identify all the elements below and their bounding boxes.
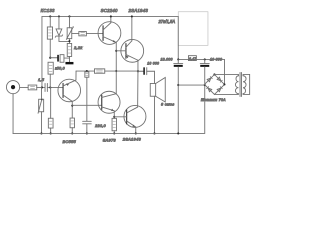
svg-text:SA973: SA973 <box>103 138 117 143</box>
potentiometer RV1 volume <box>40 87 42 99</box>
wire wiper to base resistor <box>72 32 79 34</box>
node negative line left <box>177 84 179 86</box>
transformer T1 primary <box>243 76 246 94</box>
diode bridge arm top-left <box>207 78 211 82</box>
wire bridge DC plus <box>223 59 225 84</box>
capacitor C1 input coupling 1,5 <box>44 83 46 91</box>
wire bridge to transformer bottom <box>214 93 238 96</box>
transistor Q2 2SA1943 top <box>121 39 144 62</box>
node Q5 base junction <box>113 116 115 118</box>
node input junction <box>41 86 43 88</box>
node pot ground junction <box>40 132 42 134</box>
svg-text:BC555: BC555 <box>62 139 76 144</box>
svg-text:0,47: 0,47 <box>189 57 196 61</box>
wire bridge to transformer top <box>214 74 238 75</box>
svg-text:10 000: 10 000 <box>147 61 159 65</box>
wire Q4 emitter down <box>113 111 115 119</box>
wire bottom rail <box>13 85 205 133</box>
connector J1 input jack <box>6 81 19 94</box>
wire Q1 emitter down <box>115 42 117 93</box>
resistor R5 base stopper <box>79 32 87 36</box>
svg-text:2SA1943: 2SA1943 <box>128 8 149 13</box>
gray box top right <box>178 12 208 46</box>
wire input signal <box>20 86 29 88</box>
wire feedback line <box>76 70 94 72</box>
resistor R3 lower bias <box>48 62 53 74</box>
svg-text:220,0: 220,0 <box>94 124 106 128</box>
node divider junction <box>86 70 88 72</box>
wire top positive rail <box>42 15 178 17</box>
node feedback crossing <box>115 70 117 72</box>
diode bridge arm bottom-left <box>208 88 212 92</box>
capacitor C6 10 000 right <box>204 59 206 63</box>
resistor R8 collector load <box>70 118 74 128</box>
node Q3 collector junction <box>71 105 73 107</box>
svg-text:1,5: 1,5 <box>38 77 45 82</box>
capacitor C4 output 10 000 <box>138 70 143 72</box>
resistor R4 2,2k <box>67 43 71 56</box>
node Q2 base junction <box>115 50 117 52</box>
resistor R11 bias lower <box>50 87 52 118</box>
node bridge top <box>213 73 215 75</box>
svg-text:10.000: 10.000 <box>160 58 172 62</box>
capacitor C5 10.000 left <box>177 59 179 63</box>
resistor R2 upper bias <box>49 15 51 17</box>
resistor R9 emitter <box>112 118 116 130</box>
diode bridge arm top-right <box>217 77 221 81</box>
capacitor C3 220,0 <box>83 120 92 122</box>
wire negative line <box>178 84 204 86</box>
svg-text:Шоттки 70А: Шоттки 70А <box>201 98 226 102</box>
bridge rectifier D2 <box>204 74 224 94</box>
svg-text:2,2k: 2,2k <box>73 45 83 50</box>
svg-text:27в/1,5А: 27в/1,5А <box>157 19 175 24</box>
wire positive feed down <box>177 16 179 59</box>
svg-text:2SA1943: 2SA1943 <box>122 136 142 141</box>
node base junction <box>49 86 51 88</box>
transformer core <box>239 72 241 96</box>
transformer T1 secondary <box>235 76 238 94</box>
node zener bias junction <box>49 57 51 59</box>
svg-text:КС133: КС133 <box>41 8 55 13</box>
capacitor C2 bypass k50,0 <box>50 57 57 59</box>
resistor R7 divider <box>85 72 89 77</box>
wire bias vertical from rail to input line <box>41 16 43 87</box>
transistor Q1 BC2240 <box>98 22 121 45</box>
resistor R10 0,47 <box>188 56 196 61</box>
wire filter node line <box>178 58 224 60</box>
wire R1 to junction <box>37 86 45 88</box>
transistor Q4 SA973 driver <box>98 91 120 113</box>
node trimmer junction <box>68 40 70 42</box>
wire primary terminals <box>243 74 250 94</box>
svg-text:SC2240: SC2240 <box>101 8 118 13</box>
wire jack to ground rail <box>12 94 14 134</box>
node filter left <box>177 58 179 60</box>
transistor Q5 2SA1943 bottom <box>124 105 146 127</box>
zener D1 KC133 <box>58 15 60 17</box>
resistor R1 input series <box>28 85 37 90</box>
node bridge right <box>223 83 225 85</box>
speaker LS1 <box>153 71 155 83</box>
node output junction <box>137 70 139 72</box>
wire Q3 to Q4 base <box>72 104 102 106</box>
ground bar <box>65 62 73 64</box>
trimmer RV2 <box>68 15 70 17</box>
diode bridge arm bottom-right <box>217 88 221 92</box>
svg-text:к50,0: к50,0 <box>55 66 65 70</box>
node filter right <box>204 58 206 60</box>
svg-text:10 000: 10 000 <box>210 57 222 61</box>
resistor R6 feedback <box>94 69 104 73</box>
svg-text:8 омов: 8 омов <box>161 103 174 107</box>
transistor Q3 BC555 input <box>58 79 81 102</box>
